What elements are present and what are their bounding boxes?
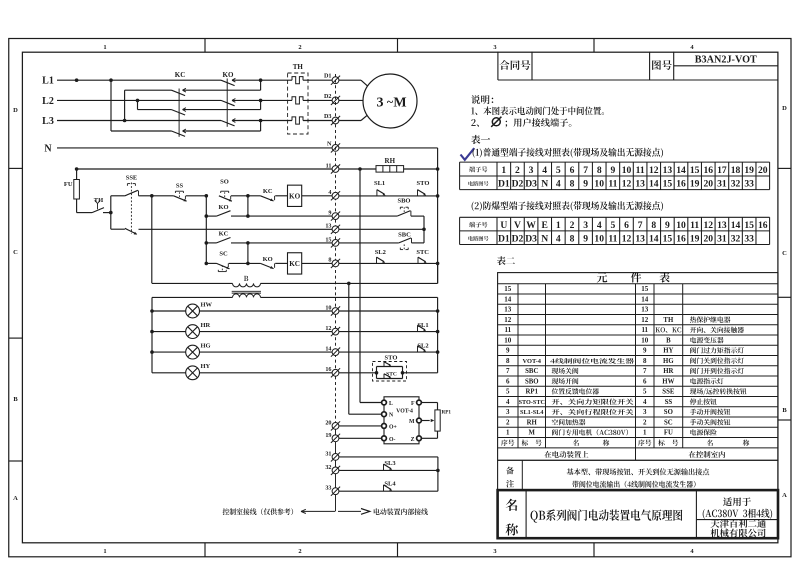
svg-text:TH: TH: [663, 317, 674, 324]
svg-text:15: 15: [325, 236, 331, 243]
node TH output: [109, 211, 113, 215]
svg-text:SL2: SL2: [375, 249, 386, 256]
wire line 4 to right rail: [339, 195, 438, 197]
svg-text:12: 12: [622, 234, 632, 245]
svg-text:1: 1: [103, 44, 106, 51]
svg-text:20: 20: [703, 234, 713, 245]
svg-text:6: 6: [506, 377, 510, 385]
svg-text:O+: O+: [389, 424, 397, 430]
svg-text:7: 7: [638, 220, 643, 231]
svg-text:D3: D3: [324, 113, 332, 120]
svg-text:SBO: SBO: [397, 197, 410, 204]
svg-text:10: 10: [594, 179, 604, 190]
svg-text:E: E: [542, 220, 548, 231]
svg-text:16: 16: [676, 179, 686, 190]
blue checkmark: [461, 148, 475, 160]
node row C joins L3 output: [259, 119, 263, 123]
company name line 1: [711, 519, 766, 528]
wire line 16 to torque switch box: [339, 372, 377, 374]
svg-text:KC: KC: [263, 188, 273, 195]
svg-text:15: 15: [663, 234, 673, 245]
rail A left riser to SSE output: [151, 196, 153, 284]
contactor coil KC: [288, 253, 302, 274]
node KC aux feed: [205, 241, 209, 245]
svg-text:12: 12: [622, 179, 632, 190]
SS output common vertical: [205, 196, 207, 264]
svg-text:10: 10: [622, 165, 632, 176]
svg-text:1: 1: [103, 548, 106, 555]
svg-text:14: 14: [325, 346, 331, 353]
svg-text:L3: L3: [42, 116, 54, 127]
node row B joins L2 output: [259, 99, 263, 103]
lamp rail left descent: [151, 297, 153, 372]
terminal table 1 grid: [460, 161, 770, 163]
element table outer box: [498, 273, 778, 461]
terminal strip dashed boundary line: [335, 74, 337, 422]
boundary arrow left: [301, 510, 335, 512]
svg-text:SC: SC: [219, 251, 228, 258]
svg-text:2: 2: [298, 44, 301, 51]
svg-text:19: 19: [690, 179, 700, 190]
svg-text:19: 19: [325, 432, 331, 439]
svg-text:KC: KC: [219, 231, 229, 238]
svg-text:3: 3: [506, 408, 510, 416]
svg-text:D: D: [13, 107, 18, 114]
svg-text:10: 10: [641, 336, 649, 344]
wire L3: [57, 120, 221, 122]
svg-text:M: M: [529, 430, 536, 437]
name label ming-cheng stacked: [506, 499, 518, 511]
top zone band dividers: [204, 39, 206, 53]
svg-text:HY: HY: [663, 348, 673, 355]
wire L1: [57, 79, 221, 81]
svg-text:12: 12: [649, 165, 659, 176]
svg-text:4: 4: [643, 398, 647, 406]
svg-text:L1: L1: [42, 76, 54, 87]
contract-number title block: [498, 79, 778, 81]
svg-text:D2: D2: [512, 179, 524, 190]
svg-text:KO: KO: [218, 204, 228, 211]
label he-tong-hao (contract no.): [500, 60, 531, 70]
svg-text:N: N: [541, 234, 548, 245]
svg-text:SS: SS: [665, 399, 673, 406]
svg-text:9: 9: [643, 347, 647, 355]
svg-text:20: 20: [325, 419, 331, 426]
svg-text:SL1: SL1: [374, 180, 385, 187]
svg-text:1: 1: [501, 165, 506, 176]
svg-text:SSE: SSE: [126, 174, 138, 181]
svg-text:HY: HY: [201, 363, 211, 370]
svg-text:19: 19: [744, 165, 754, 176]
svg-text:15: 15: [663, 179, 673, 190]
svg-text:SBO: SBO: [525, 378, 539, 385]
svg-text:N: N: [541, 179, 548, 190]
svg-text:15: 15: [744, 220, 754, 231]
svg-text:32: 32: [731, 234, 741, 245]
wire line 13 remote common: [139, 228, 333, 230]
svg-text:6: 6: [624, 220, 629, 231]
svg-text:5: 5: [643, 388, 647, 396]
svg-text:W: W: [526, 220, 536, 231]
svg-text:13: 13: [635, 234, 645, 245]
svg-text:VOT-4: VOT-4: [396, 408, 413, 414]
wire terminal 19 to O-: [339, 437, 382, 439]
svg-text:STC: STC: [386, 372, 397, 378]
wire terminal 20 to O+: [339, 425, 382, 427]
svg-text:16: 16: [325, 366, 331, 373]
boundary arrow right: [338, 510, 361, 512]
node self-hold junction line 4: [246, 194, 250, 198]
notes heading shuo-ming: [471, 95, 493, 104]
wire line 12 right: [339, 331, 438, 333]
node L3 tap: [123, 119, 127, 123]
svg-text:1: 1: [556, 220, 561, 231]
svg-text:FU: FU: [64, 181, 73, 188]
boundary label actuator side: [374, 508, 428, 515]
svg-text:F: F: [411, 401, 415, 407]
node on line 13: [422, 228, 426, 232]
svg-text:8: 8: [651, 220, 656, 231]
svg-text:11: 11: [608, 234, 617, 245]
node line 32: [436, 469, 440, 473]
table-two heading biao-er: [497, 256, 515, 265]
wire line 10 right: [339, 310, 438, 312]
svg-text:4: 4: [328, 189, 331, 196]
svg-text:14: 14: [649, 179, 659, 190]
node rail A to VOT-4 N feed: [347, 282, 351, 286]
svg-text:14: 14: [731, 220, 741, 231]
svg-text:D1: D1: [498, 234, 510, 245]
svg-text:11: 11: [641, 326, 648, 334]
svg-text:7: 7: [643, 367, 647, 375]
svg-text:SO: SO: [664, 409, 673, 416]
control return rail A: [152, 282, 233, 284]
svg-text:4: 4: [506, 398, 510, 406]
node FU-line11: [75, 167, 79, 171]
svg-text:20: 20: [703, 179, 713, 190]
svg-text:11: 11: [326, 162, 332, 169]
svg-text:13: 13: [504, 306, 512, 314]
svg-text:L2: L2: [42, 96, 54, 107]
svg-text:V: V: [514, 220, 521, 231]
svg-text:C: C: [782, 250, 787, 257]
svg-text:15: 15: [504, 285, 512, 293]
svg-text:D2: D2: [324, 93, 332, 100]
svg-text:13: 13: [663, 165, 673, 176]
wire line 4 open-coil branch: [152, 195, 174, 197]
svg-text:33: 33: [744, 179, 754, 190]
wire line 33 with SL4: [339, 490, 438, 492]
svg-text:RP1: RP1: [442, 410, 452, 416]
applicability label shi-yong-yu: [723, 497, 751, 506]
wire line 9 holding branch: [206, 215, 216, 217]
contactor coil KO: [288, 185, 302, 206]
svg-text:TH: TH: [293, 63, 304, 71]
location row labels: [545, 451, 589, 458]
svg-text:KC: KC: [289, 260, 300, 268]
svg-text:13: 13: [717, 220, 727, 231]
svg-text:D3: D3: [525, 179, 537, 190]
node line11-lamp rail: [358, 167, 362, 171]
svg-text:12: 12: [325, 325, 331, 332]
wire line 11 heater circuit: [77, 168, 333, 170]
wire line 8 close-coil branch: [206, 262, 216, 264]
wire line 14 right: [339, 351, 438, 353]
svg-text:1: 1: [643, 429, 647, 437]
right zone band dividers: [778, 167, 791, 169]
wire VOT-4 L supply: [360, 402, 382, 404]
svg-text:2: 2: [506, 418, 510, 426]
lamp feed rail from line 11: [359, 169, 361, 403]
node line11-right rail: [436, 167, 440, 171]
node line 8 link: [246, 262, 250, 266]
svg-text:4: 4: [556, 234, 561, 245]
svg-text:D1: D1: [498, 179, 510, 190]
svg-text:32: 32: [731, 179, 741, 190]
svg-text:17: 17: [717, 165, 727, 176]
svg-text:M: M: [393, 95, 406, 110]
svg-text:8: 8: [643, 357, 647, 365]
table 2 row labels: [469, 222, 487, 228]
node SSE output to rail: [150, 194, 154, 198]
svg-text:31: 31: [325, 450, 331, 457]
caption (1) ordinary terminal wiring table: [473, 148, 663, 158]
svg-text:9: 9: [328, 210, 331, 217]
lamp rail right descent: [437, 297, 439, 372]
svg-text:D2: D2: [512, 234, 524, 245]
node line 10 rail: [436, 309, 440, 313]
node L1-cross tap: [109, 78, 113, 82]
svg-text:9: 9: [583, 179, 588, 190]
svg-text:2: 2: [643, 418, 647, 426]
svg-text:KO: KO: [223, 71, 234, 79]
VOT-4 N feed rail: [348, 283, 350, 414]
svg-text:KO: KO: [263, 256, 273, 263]
svg-text:Z: Z: [411, 437, 415, 443]
svg-text:D3: D3: [525, 234, 537, 245]
svg-text:SBC: SBC: [525, 368, 538, 375]
svg-text:14: 14: [676, 165, 686, 176]
svg-text:B3AN2J-VOT: B3AN2J-VOT: [695, 55, 757, 66]
svg-text:8: 8: [328, 257, 331, 264]
svg-text:3: 3: [377, 95, 384, 110]
self-hold vertical KO: [247, 196, 249, 216]
svg-text:11: 11: [608, 179, 617, 190]
element table vertical rules: [517, 284, 519, 448]
svg-text:HW: HW: [201, 301, 213, 308]
svg-text:13: 13: [635, 179, 645, 190]
element table column header row: [501, 440, 514, 446]
remark text line 1: [567, 468, 709, 475]
node lamp HG tap: [150, 350, 154, 354]
remark row: [498, 489, 778, 491]
table 1 row labels: [469, 166, 487, 172]
wire N: [57, 147, 332, 149]
svg-text:STO: STO: [385, 354, 398, 361]
svg-text:STO: STO: [417, 180, 430, 187]
bottom title block thick border: [498, 490, 778, 538]
bottom zone band dividers: [204, 543, 206, 557]
svg-text:7: 7: [506, 367, 510, 375]
wire line 8 to right rail: [339, 262, 438, 264]
svg-text:16: 16: [703, 165, 713, 176]
svg-text:RH: RH: [527, 419, 538, 426]
svg-text:10: 10: [676, 220, 686, 231]
boundary label control room side: [223, 508, 293, 515]
svg-text:8: 8: [570, 234, 575, 245]
svg-text:14: 14: [504, 295, 512, 303]
svg-text:12: 12: [703, 220, 713, 231]
svg-text:5: 5: [506, 388, 510, 396]
remark text line 2: [572, 481, 695, 488]
svg-text:SSE: SSE: [662, 389, 675, 396]
drawing title QB series: [531, 509, 683, 522]
wire line 32 with SL3: [339, 469, 438, 471]
wire line 15 close-holding branch: [206, 242, 216, 244]
svg-text:B: B: [13, 396, 18, 403]
svg-text:KC: KC: [175, 71, 186, 79]
svg-text:31: 31: [717, 234, 727, 245]
svg-text:RH: RH: [385, 157, 396, 165]
svg-text:4: 4: [556, 179, 561, 190]
svg-text:6: 6: [570, 165, 575, 176]
wire line 31: [339, 456, 438, 458]
svg-text:D1: D1: [324, 73, 332, 80]
svg-text:KO: KO: [289, 192, 301, 200]
rail A right riser to line 8: [437, 263, 439, 283]
svg-text:D: D: [782, 105, 787, 112]
svg-text:HG: HG: [201, 342, 211, 349]
svg-text:STO-STC: STO-STC: [519, 399, 545, 406]
node SS output: [205, 194, 209, 198]
svg-text:12: 12: [504, 316, 512, 324]
svg-text:8: 8: [570, 179, 575, 190]
svg-text:9: 9: [610, 165, 615, 176]
svg-text:16: 16: [758, 220, 768, 231]
table-one heading biao-yi: [471, 135, 490, 144]
svg-text:O-: O-: [389, 437, 396, 443]
wire VOT-4 N supply: [349, 413, 382, 415]
svg-text:3: 3: [529, 165, 534, 176]
node L2 tap: [136, 99, 140, 103]
svg-text:14: 14: [649, 234, 659, 245]
label tu-hao (drawing no.): [652, 60, 672, 70]
node SC feed: [205, 262, 209, 266]
svg-text:B: B: [666, 337, 671, 344]
remark label bei-zhu stacked: [506, 467, 514, 475]
torque switch parallel box STO-STC: [373, 362, 407, 382]
svg-text:RP1: RP1: [526, 389, 539, 396]
svg-text:10: 10: [325, 304, 331, 311]
svg-text:20: 20: [758, 165, 768, 176]
node line 8 right rail: [436, 262, 440, 266]
node line 15 link: [246, 241, 250, 245]
svg-text:8: 8: [597, 165, 602, 176]
svg-text:HG: HG: [663, 358, 674, 365]
svg-text:STC: STC: [416, 249, 429, 256]
element table horizontal rules: [498, 283, 778, 285]
svg-text:18: 18: [731, 165, 741, 176]
node lamp HW tap: [150, 309, 154, 313]
node line 14 rail: [436, 350, 440, 354]
lamp supply rail B: [152, 296, 233, 298]
transformer B: [244, 276, 248, 281]
svg-text:12: 12: [641, 316, 649, 324]
svg-text:3: 3: [583, 220, 588, 231]
wire N drop to line 11: [437, 148, 439, 169]
node line 12 rail: [436, 330, 440, 334]
caption (2) explosion-proof terminal wiring table: [472, 201, 663, 211]
svg-text:33: 33: [325, 485, 331, 492]
svg-text:10: 10: [594, 234, 604, 245]
svg-text:A: A: [782, 492, 787, 499]
svg-text:HR: HR: [201, 322, 211, 329]
svg-text:9: 9: [665, 220, 670, 231]
note 2 text with terminal symbol: [471, 119, 479, 127]
svg-text:9: 9: [583, 234, 588, 245]
svg-text:15: 15: [641, 285, 649, 293]
svg-text:33: 33: [744, 234, 754, 245]
svg-text:C: C: [13, 249, 18, 256]
self-hold vertical KC: [247, 243, 249, 264]
svg-text:HR: HR: [663, 368, 673, 375]
svg-text:SC: SC: [664, 419, 673, 426]
svg-text:2: 2: [570, 220, 575, 231]
svg-text:SBC: SBC: [398, 231, 411, 238]
bottom title block dividers: [525, 490, 527, 538]
svg-text:5: 5: [556, 165, 561, 176]
svg-text:14: 14: [641, 295, 649, 303]
svg-text:9: 9: [506, 347, 510, 355]
svg-text:13: 13: [325, 223, 331, 230]
svg-text:2: 2: [298, 548, 301, 555]
svg-text:5: 5: [610, 220, 615, 231]
node row A joins L1 output: [259, 78, 263, 82]
applicability voltage text: [703, 509, 772, 519]
node line 4 right rail: [436, 194, 440, 198]
svg-text:6: 6: [643, 377, 647, 385]
svg-text:15: 15: [690, 165, 700, 176]
svg-text:B: B: [782, 407, 787, 414]
svg-text:7: 7: [583, 165, 588, 176]
note 1 text: [471, 106, 604, 115]
svg-text:FU: FU: [664, 430, 673, 437]
wire line 9 right: [339, 215, 397, 217]
node L1-FU tap: [75, 78, 79, 82]
svg-text:M: M: [409, 419, 415, 425]
svg-text:11: 11: [504, 326, 511, 334]
svg-text:N: N: [44, 143, 52, 154]
wire L2: [57, 99, 221, 101]
svg-text:16: 16: [676, 234, 686, 245]
motor M 3-phase: [363, 74, 417, 128]
svg-text:SS: SS: [176, 182, 184, 189]
svg-text:1: 1: [506, 429, 510, 437]
svg-text:2: 2: [515, 165, 520, 176]
svg-text:N: N: [327, 140, 332, 147]
svg-text:11: 11: [690, 220, 699, 231]
svg-text:HW: HW: [662, 378, 674, 385]
svg-text:10: 10: [504, 336, 512, 344]
svg-text:SL1-SL4: SL1-SL4: [520, 409, 543, 416]
motor feed wires: [339, 79, 361, 81]
element table header yuan-jian-biao: [597, 272, 607, 282]
svg-text:32: 32: [325, 464, 331, 471]
svg-text:4: 4: [597, 220, 602, 231]
wire crossover row A from L3: [124, 90, 126, 120]
node KO aux feed: [205, 214, 209, 218]
svg-text:31: 31: [717, 179, 727, 190]
